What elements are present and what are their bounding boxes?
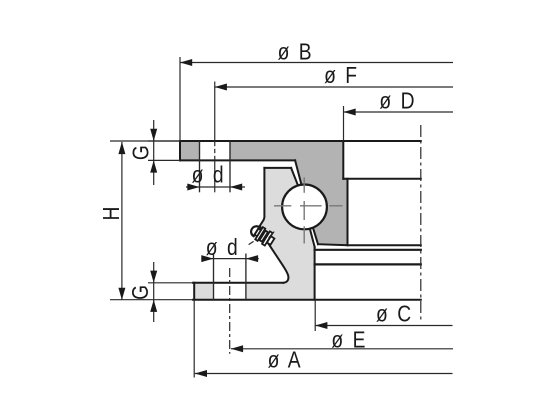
- inner ring (sectioned, light grey fill): [194, 168, 315, 300]
- grease duct centerline tick inner: [269, 232, 275, 238]
- dimension lines: [110, 57, 453, 378]
- ball vertical centerline middle dash: [303, 201, 305, 220]
- grease nipple threaded shank: [267, 236, 274, 245]
- svg-text:ø D: ø D: [379, 88, 415, 114]
- ext line A: [193, 300, 195, 378]
- svg-text:ø d: ø d: [206, 234, 239, 260]
- arrow D: [344, 109, 356, 116]
- centerline dash gap 1: [214, 146, 216, 149]
- right centerline (dash-dot): [420, 125, 422, 323]
- grease nipple hex band 1: [255, 227, 265, 241]
- arrowheads: [118, 59, 355, 377]
- centerline dash gap 2: [214, 153, 216, 156]
- svg-text:H: H: [98, 206, 124, 221]
- dim small d top line: [186, 186, 245, 188]
- svg-text:ø C: ø C: [376, 301, 412, 327]
- inner ring right edge: [314, 247, 316, 300]
- outer ring bottom face: [318, 244, 348, 245]
- ext line C: [314, 300, 316, 331]
- dim F line: [215, 86, 453, 88]
- outer ring right edge upper: [342, 141, 344, 179]
- inner ring gap diagonal upper: [291, 168, 299, 187]
- arrow E: [231, 345, 243, 352]
- dim B line: [180, 62, 453, 64]
- grease nipple neck band: [255, 229, 261, 237]
- ext line B: [179, 57, 181, 141]
- arrows d bottom: [201, 255, 213, 262]
- seal line lower: [315, 263, 421, 265]
- svg-text:ø E: ø E: [331, 327, 366, 353]
- top flange underside: [180, 159, 295, 161]
- top bolt hole left edge / extension line: [199, 141, 201, 192]
- grease nipple dome cap: [249, 224, 259, 236]
- ball horizontal centerline right dash: [329, 205, 342, 207]
- svg-text:ø d: ø d: [192, 162, 225, 188]
- arrows H: [118, 142, 125, 154]
- grease nipple flange band: [262, 231, 273, 245]
- ball: [282, 185, 327, 230]
- top bolt hole right edge / extension line: [229, 141, 231, 192]
- top face line: [180, 140, 421, 142]
- grease nipple axis tick outer: [249, 241, 254, 244]
- dim D line: [344, 111, 454, 113]
- bottom flange left edge: [193, 283, 195, 300]
- svg-text:G: G: [127, 284, 153, 300]
- dim small d bottom line: [201, 258, 258, 260]
- bottom flange top face: [193, 282, 284, 284]
- dim C line: [315, 325, 452, 327]
- bottom bolt hole left edge / extension line: [213, 254, 215, 300]
- mounting rect lower bottom edge: [348, 244, 421, 246]
- bolt hole in top flange: [200, 140, 229, 162]
- top hole centerline: [214, 82, 216, 193]
- part outlines: [180, 141, 421, 300]
- ext line G bottom: [148, 282, 193, 284]
- bottom hole centerline: [229, 268, 231, 354]
- ball vertical centerline top dash: [303, 177, 305, 192]
- mounting rect upper bottom edge: [343, 178, 421, 180]
- dim A line: [195, 373, 453, 375]
- ball vertical centerline bottom dash: [303, 226, 305, 243]
- inner ring nipple boss edges: [260, 168, 266, 240]
- arrows G top: [150, 129, 157, 141]
- outer ring (sectioned, dark grey fill): [180, 141, 348, 245]
- outer ring right edge lower: [347, 179, 349, 245]
- inner ring gap diagonal lower: [309, 226, 315, 247]
- inner ring lower-left corner and diagonal: [266, 240, 288, 283]
- arrow C: [315, 322, 327, 329]
- dim G bottom line: [153, 262, 155, 322]
- arrows d top: [187, 184, 199, 191]
- svg-text:ø B: ø B: [278, 39, 313, 65]
- dim E line: [231, 348, 453, 350]
- top flange left end edge: [179, 141, 181, 160]
- ext lines G top: [148, 140, 180, 142]
- bottom face line: [193, 299, 421, 301]
- arrow B: [180, 59, 192, 66]
- ext line D: [343, 106, 345, 141]
- svg-text:ø F: ø F: [324, 62, 358, 88]
- arrows G bottom: [150, 271, 157, 283]
- bolt hole in bottom flange: [214, 284, 245, 299]
- outer ring gap diagonal upper: [295, 160, 302, 187]
- arrow A: [195, 370, 207, 377]
- seal line upper: [315, 249, 421, 251]
- outer ring gap diagonal lower: [312, 226, 318, 245]
- ext lines H: [110, 140, 180, 142]
- grease nipple hex band 2: [260, 231, 268, 242]
- ball horizontal centerline left dash: [274, 205, 291, 207]
- bottom bolt hole right edge / extension line: [245, 254, 247, 300]
- svg-text:G: G: [128, 144, 154, 160]
- svg-text:ø A: ø A: [268, 347, 302, 373]
- dim G top line: [153, 120, 155, 185]
- arrow F: [215, 84, 227, 91]
- dim H line: [121, 142, 123, 300]
- ball horizontal centerline middle dash: [300, 205, 322, 207]
- inner ring top face: [264, 167, 291, 169]
